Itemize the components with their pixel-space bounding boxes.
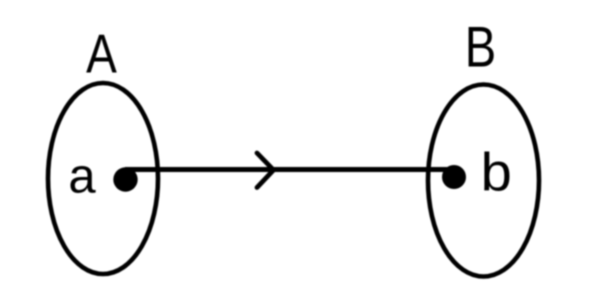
ellipse set A <box>48 83 158 274</box>
svg-text:B: B <box>465 15 496 80</box>
svg-text:b: b <box>481 142 512 202</box>
node a dot <box>113 167 137 191</box>
node b dot <box>442 165 466 189</box>
wire arrow a to b <box>125 167 454 172</box>
svg-text:A: A <box>86 23 117 85</box>
arrowhead chevron <box>257 153 274 188</box>
ellipse set B <box>428 85 539 277</box>
svg-text:a: a <box>68 150 96 204</box>
